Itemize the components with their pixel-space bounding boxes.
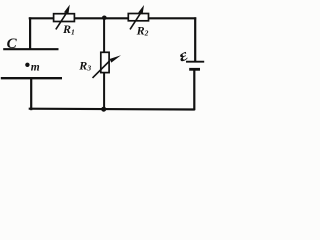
svg-text:C: C: [7, 36, 18, 52]
svg-text:m: m: [31, 62, 40, 74]
